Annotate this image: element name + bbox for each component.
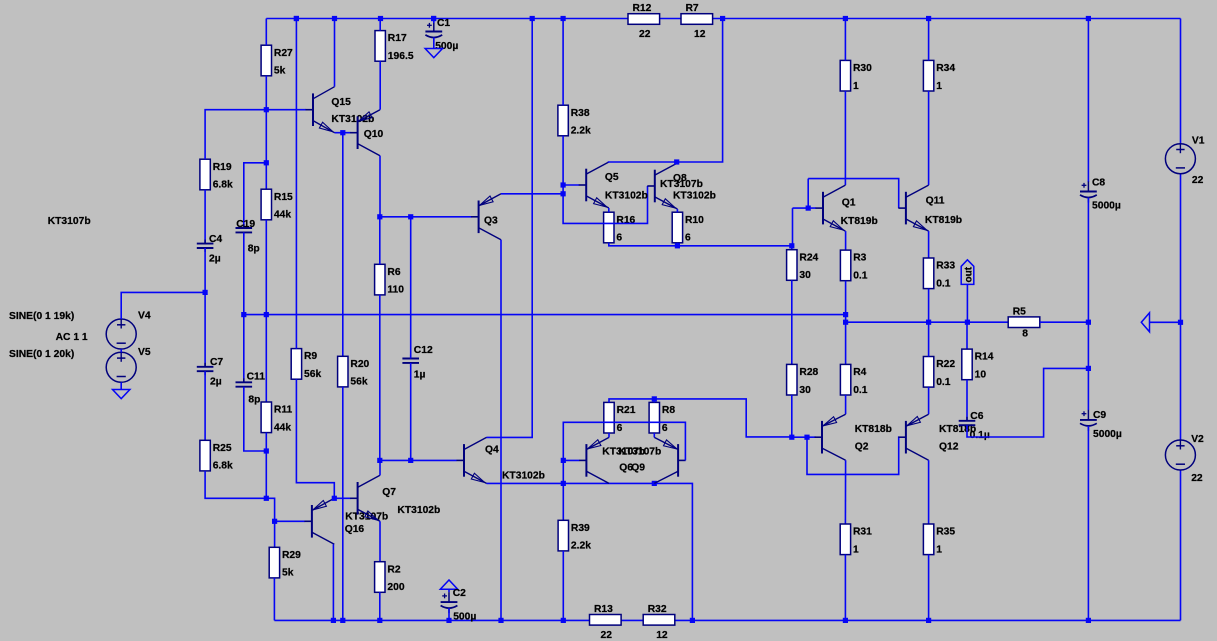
junction	[340, 130, 345, 135]
wire R11 to Q16 node	[265, 433, 267, 499]
wire rail to C1	[433, 19, 435, 24]
wire R24 top	[791, 208, 794, 250]
svg-text:500µ: 500µ	[435, 41, 458, 52]
svg-text:R5: R5	[1013, 306, 1026, 317]
svg-text:R31: R31	[853, 527, 872, 538]
wire R19 bottom to C4	[204, 190, 206, 244]
svg-text:8p: 8p	[248, 395, 260, 406]
svg-text:196.5: 196.5	[388, 51, 414, 62]
wire C19 top link	[244, 163, 266, 228]
svg-text:R10: R10	[685, 215, 704, 226]
junction	[446, 618, 451, 623]
wire R29 from Q16 base	[274, 521, 276, 547]
resistor R29	[269, 547, 301, 578]
resistor R8	[649, 402, 675, 433]
junction	[843, 312, 848, 317]
wire R10 bottom stub	[676, 243, 678, 246]
wire Q12 collector to R35	[928, 460, 930, 524]
wire C2 to rail	[448, 608, 450, 620]
junction	[561, 182, 566, 187]
junction	[408, 458, 413, 463]
junction	[652, 396, 657, 401]
resistor R38	[558, 105, 591, 136]
svg-text:KT3107b: KT3107b	[48, 216, 91, 227]
svg-text:12: 12	[694, 29, 706, 40]
transistor Q2	[815, 414, 846, 460]
svg-text:R30: R30	[853, 63, 872, 74]
wire Q7 collector up	[379, 460, 381, 475]
svg-text:1µ: 1µ	[414, 370, 426, 381]
junction	[1086, 16, 1091, 21]
svg-text:R24: R24	[799, 252, 818, 263]
wire out flag lead	[966, 284, 968, 322]
svg-text:22: 22	[1191, 473, 1203, 484]
wire Q2 collector to R31	[844, 460, 846, 524]
resistor R10	[672, 212, 704, 243]
svg-text:out: out	[963, 266, 974, 282]
junction	[498, 618, 503, 623]
resistor R12	[628, 3, 660, 40]
junction	[674, 159, 679, 164]
transistor Q11	[898, 185, 928, 231]
svg-text:R35: R35	[936, 527, 955, 538]
wire R39 bottom to rail	[562, 551, 564, 621]
wire R29 bottom to rail	[273, 578, 275, 621]
wire R14 top	[966, 322, 968, 349]
svg-text:1: 1	[936, 81, 942, 92]
svg-text:Q2: Q2	[855, 441, 869, 452]
svg-text:6.8k: 6.8k	[213, 180, 233, 191]
svg-text:KT3102b: KT3102b	[397, 505, 440, 516]
wire rail to R34	[928, 19, 930, 61]
svg-text:2µ: 2µ	[209, 253, 221, 264]
svg-text:5000µ: 5000µ	[1092, 201, 1121, 212]
ground	[113, 390, 130, 399]
wire R14 to C6	[966, 380, 968, 421]
resistor R22	[923, 357, 955, 388]
wire V4 top to input node	[121, 292, 205, 319]
ground	[1141, 313, 1149, 332]
wire Q16 emitter node to Q7 base	[334, 497, 350, 499]
svg-text:0.1: 0.1	[853, 385, 868, 396]
svg-text:R39: R39	[571, 523, 590, 534]
junction	[377, 458, 382, 463]
resistor R11	[261, 402, 292, 433]
resistor R27	[261, 45, 293, 76]
svg-text:44k: 44k	[274, 210, 291, 221]
resistor R15	[261, 189, 293, 220]
wire output line to R22	[928, 322, 930, 356]
svg-text:V5: V5	[138, 347, 151, 358]
resistor R19	[200, 159, 233, 190]
svg-text:6: 6	[685, 233, 691, 244]
resistor R7	[681, 3, 713, 40]
svg-text:2.2k: 2.2k	[571, 541, 591, 552]
svg-text:V4: V4	[138, 311, 151, 322]
svg-text:56k: 56k	[350, 377, 367, 388]
junction	[843, 16, 848, 21]
svg-text:C2: C2	[453, 588, 466, 599]
wire V5 to ground	[120, 382, 122, 389]
svg-text:22: 22	[1192, 175, 1204, 186]
svg-text:Q11: Q11	[926, 196, 945, 207]
svg-text:R7: R7	[686, 3, 699, 14]
junction	[264, 312, 269, 317]
wire rail to R27	[265, 19, 267, 46]
svg-text:R22: R22	[936, 359, 955, 370]
wire C12 bottom	[410, 363, 412, 461]
junction	[264, 160, 269, 165]
wire Q3 base row to R6	[379, 217, 381, 264]
junction	[843, 618, 848, 623]
resistor R25	[200, 440, 233, 471]
junction	[652, 481, 657, 486]
wire rail to R17	[379, 19, 381, 31]
wire R6 bottom to Q7 collector row	[379, 295, 381, 461]
transistor Q6	[579, 437, 609, 483]
junction	[789, 435, 794, 440]
svg-text:5k: 5k	[274, 66, 286, 77]
svg-text:Q15: Q15	[331, 97, 351, 108]
svg-text:0.1: 0.1	[936, 377, 951, 388]
svg-text:Q5: Q5	[605, 172, 619, 183]
svg-text:R4: R4	[853, 367, 866, 378]
svg-text:R8: R8	[662, 405, 675, 416]
svg-text:0.1: 0.1	[936, 278, 951, 289]
junction	[675, 243, 680, 248]
wire R20 column from Q15 emitter	[342, 133, 344, 357]
wire R24 to R28	[791, 280, 793, 364]
wire R20 bottom to rail	[342, 387, 344, 621]
svg-text:6: 6	[662, 423, 668, 434]
voltage source V4	[106, 311, 151, 350]
wire C8 to output node	[1087, 198, 1089, 323]
svg-text:R38: R38	[571, 108, 590, 119]
junction	[561, 191, 566, 196]
wire R16 R10 bottoms to R24	[609, 243, 792, 246]
junction	[1086, 366, 1091, 371]
ground	[440, 580, 457, 589]
svg-text:R28: R28	[799, 367, 818, 378]
svg-text:R6: R6	[387, 267, 400, 278]
wire R19 top to Q15 base row	[205, 110, 306, 160]
resistor R16	[604, 212, 636, 243]
junction	[378, 16, 383, 21]
wire R35 bottom to rail	[928, 555, 930, 621]
resistor R30	[840, 60, 872, 91]
wire right rail upper	[1180, 19, 1182, 144]
svg-text:200: 200	[387, 582, 404, 593]
junction	[1178, 320, 1183, 325]
svg-text:0.1: 0.1	[853, 271, 868, 282]
svg-text:C9: C9	[1093, 410, 1106, 421]
wire output line	[846, 321, 1009, 323]
svg-text:SINE(0 1 20k): SINE(0 1 20k)	[9, 349, 74, 360]
wire C11 bottom link	[244, 387, 266, 451]
junction	[294, 16, 299, 21]
wire R38 bottom to Q8 base loop	[563, 136, 647, 224]
junction	[377, 214, 382, 219]
junction	[431, 16, 436, 21]
wire output node to C9	[1087, 322, 1089, 410]
svg-text:500µ: 500µ	[453, 612, 476, 623]
junction	[926, 320, 931, 325]
capacitor C4	[197, 234, 223, 264]
wire Q1 emitter to R3	[845, 231, 847, 250]
junction	[272, 519, 277, 524]
junction	[264, 107, 269, 112]
junction	[804, 435, 809, 440]
wire Q16 collector to rail	[332, 544, 334, 620]
wire R3 to R4 output node	[845, 281, 847, 365]
wire R33 bottom to output line	[928, 289, 930, 323]
svg-text:56k: 56k	[304, 369, 321, 380]
wire Q11 emitter to R33	[928, 231, 930, 258]
svg-text:0.1µ: 0.1µ	[970, 430, 990, 441]
wire C6 bottom Z link	[967, 368, 1088, 437]
svg-text:44k: 44k	[274, 422, 291, 433]
svg-text:6.8k: 6.8k	[213, 461, 233, 472]
wire Q3 collector to bottom rail	[500, 240, 502, 621]
junction	[926, 16, 931, 21]
wire R22 bottom to Q12 emitter	[928, 387, 930, 414]
wire C12 top	[410, 217, 412, 359]
svg-text:C19: C19	[236, 219, 255, 230]
resistor R14	[962, 349, 994, 380]
junction	[561, 16, 566, 21]
wire Q10 collector down to Q3 base row	[379, 156, 381, 217]
capacitor C9	[1080, 410, 1122, 440]
wire C4 to C7 with V4 tap	[204, 248, 206, 367]
svg-text:R29: R29	[282, 550, 301, 561]
svg-text:R25: R25	[213, 443, 232, 454]
wire Q6 emitter stub to R21	[608, 433, 610, 437]
svg-text:8p: 8p	[248, 244, 260, 255]
resistor R34	[923, 60, 955, 91]
wire R21 R8 tops bias line	[609, 399, 792, 437]
svg-text:SINE(0 1 19k): SINE(0 1 19k)	[9, 311, 74, 322]
junction	[561, 618, 566, 623]
svg-text:10: 10	[975, 370, 987, 381]
svg-text:1: 1	[853, 81, 859, 92]
svg-text:R12: R12	[633, 3, 652, 14]
wire bottom negative rail	[274, 619, 1180, 621]
wire R25 bottom to Q16 base jog	[205, 471, 305, 521]
junction	[806, 206, 811, 211]
transistor Q15	[306, 87, 335, 133]
wire Q5 Q8 collectors to rail	[608, 19, 723, 163]
wire R28 bottom to bias node	[791, 395, 793, 437]
svg-text:C6: C6	[970, 411, 983, 422]
svg-text:22: 22	[601, 630, 613, 641]
resistor R6	[375, 264, 405, 295]
wire Q11 base stub	[898, 207, 900, 209]
svg-text:R20: R20	[350, 359, 369, 370]
wire right rail lower	[1180, 470, 1182, 620]
wire Q9 base loop	[563, 422, 685, 520]
wire R5 to supply cap column	[1040, 321, 1089, 323]
transistor Q9	[654, 437, 685, 483]
junction	[408, 214, 413, 219]
junction	[431, 16, 436, 21]
resistor R5	[1008, 306, 1040, 339]
voltage source V2	[1165, 434, 1204, 484]
transistor Q10	[350, 110, 380, 156]
junction	[561, 481, 566, 486]
svg-text:C4: C4	[209, 234, 222, 245]
junction	[331, 618, 336, 623]
resistor R35	[923, 524, 955, 555]
resistor R32	[643, 604, 675, 641]
junction	[340, 618, 345, 623]
resistor R3	[840, 250, 867, 281]
svg-text:6: 6	[617, 423, 623, 434]
wire Q1 base branch	[793, 207, 816, 209]
junction	[241, 312, 246, 317]
svg-text:Q7: Q7	[382, 487, 396, 498]
svg-text:Q16: Q16	[345, 524, 365, 535]
resistor R28	[787, 364, 819, 395]
svg-text:KT3102b: KT3102b	[605, 190, 648, 201]
resistor R17	[375, 31, 414, 62]
resistor R39	[558, 520, 591, 551]
svg-text:KT819b: KT819b	[841, 216, 878, 227]
svg-text:5k: 5k	[282, 568, 294, 579]
transistor Q12	[898, 414, 928, 460]
wire Q5 base	[563, 184, 579, 186]
wire Q9 emitter stub to R8	[653, 433, 655, 437]
junction	[530, 16, 535, 21]
wire rail to R30	[844, 19, 846, 61]
capacitor C11	[236, 372, 266, 406]
transistor Q16	[304, 498, 334, 544]
capacitor C7	[197, 357, 224, 388]
wire ground to right rail	[1150, 321, 1181, 323]
svg-text:R3: R3	[853, 253, 866, 264]
svg-text:Q12: Q12	[939, 441, 959, 452]
resistor R20	[338, 356, 370, 387]
svg-text:1: 1	[853, 544, 859, 555]
wire R30 to Q1 collector	[844, 91, 846, 185]
svg-text:KT3107b: KT3107b	[618, 447, 661, 458]
wire Q3 emitter to Q5 base node	[501, 193, 563, 195]
svg-text:R27: R27	[274, 48, 293, 59]
transistor Q4	[457, 437, 487, 483]
wire C19 bottom to C11	[243, 232, 245, 382]
wire R15 to R11	[265, 220, 267, 402]
wire Q1-Q11 base link	[808, 179, 899, 209]
ground	[425, 49, 442, 58]
svg-text:KT819b: KT819b	[925, 215, 962, 226]
svg-text:R11: R11	[274, 405, 293, 416]
svg-text:Q9: Q9	[631, 463, 645, 474]
svg-text:22: 22	[639, 29, 651, 40]
wire top positive rail	[266, 18, 1180, 20]
wire rail to R9	[295, 19, 297, 349]
capacitor C19	[236, 219, 260, 255]
wire R17 to Q10 emitter	[379, 61, 381, 109]
svg-text:R21: R21	[617, 405, 636, 416]
transistor Q8	[647, 163, 677, 209]
svg-text:R33: R33	[936, 261, 955, 272]
svg-text:6: 6	[616, 233, 622, 244]
wire C2 ground stub	[448, 589, 450, 592]
wire rail to C8	[1087, 19, 1089, 183]
wire C1 to ground	[433, 38, 435, 49]
svg-text:Q1: Q1	[842, 198, 856, 209]
svg-text:Q10: Q10	[364, 129, 384, 140]
svg-text:R2: R2	[387, 564, 400, 575]
svg-text:R34: R34	[936, 63, 955, 74]
svg-text:C8: C8	[1092, 178, 1105, 189]
svg-text:V1: V1	[1192, 136, 1205, 147]
junction	[926, 618, 931, 623]
junction	[294, 16, 299, 21]
svg-text:KT3102b: KT3102b	[673, 190, 716, 201]
svg-text:Q4: Q4	[485, 445, 499, 456]
junction	[843, 320, 848, 325]
wire bias node to Q2 base	[792, 436, 816, 438]
wire Q6 base	[563, 459, 579, 461]
svg-text:C7: C7	[210, 357, 223, 368]
wire V4 to V5	[120, 349, 122, 352]
resistor R4	[840, 364, 867, 395]
svg-text:2.2k: 2.2k	[571, 126, 591, 137]
wire rail to Q4 collector	[487, 19, 533, 438]
wire C9 to rail	[1087, 426, 1089, 620]
wire Q5 emitter stub to R16	[608, 208, 610, 212]
junction	[720, 16, 725, 21]
svg-text:AC 1 1: AC 1 1	[56, 332, 88, 343]
svg-text:C12: C12	[414, 345, 433, 356]
wire C7 to R25	[204, 371, 206, 440]
wire R27 to R15	[265, 76, 267, 189]
svg-text:12: 12	[656, 630, 668, 641]
svg-text:R13: R13	[594, 604, 613, 615]
svg-text:8: 8	[1022, 329, 1028, 340]
transistor Q5	[579, 162, 609, 208]
wire Q7 emitter to R2	[379, 521, 381, 561]
svg-text:2µ: 2µ	[210, 377, 222, 388]
resistor R9	[291, 349, 321, 380]
junction	[1086, 618, 1091, 623]
wire R8 top stub	[653, 399, 655, 403]
wire R9 bottom to Q16 emitter node	[296, 379, 334, 498]
junction	[264, 448, 269, 453]
junction	[264, 496, 269, 501]
wire Q3 base wire	[380, 216, 472, 218]
svg-text:R32: R32	[648, 604, 667, 615]
wire Q8 emitter stub to R10	[676, 209, 678, 212]
wire R31 bottom to rail	[844, 555, 846, 621]
junction	[332, 496, 337, 501]
svg-text:KT3107b: KT3107b	[660, 179, 703, 190]
junction	[789, 243, 794, 248]
junction	[377, 618, 382, 623]
resistor R21	[604, 402, 636, 433]
svg-text:30: 30	[799, 270, 811, 281]
capacitor C6	[959, 411, 990, 441]
wire Q1 base riser	[807, 179, 809, 209]
junction	[203, 290, 208, 295]
svg-text:Q3: Q3	[484, 216, 498, 227]
svg-text:C1: C1	[437, 18, 450, 29]
resistor R2	[375, 562, 405, 593]
wire R34 to Q11 collector	[928, 91, 930, 185]
node flag out	[961, 260, 974, 285]
resistor R24	[787, 250, 819, 281]
wire right rail middle	[1180, 174, 1182, 440]
